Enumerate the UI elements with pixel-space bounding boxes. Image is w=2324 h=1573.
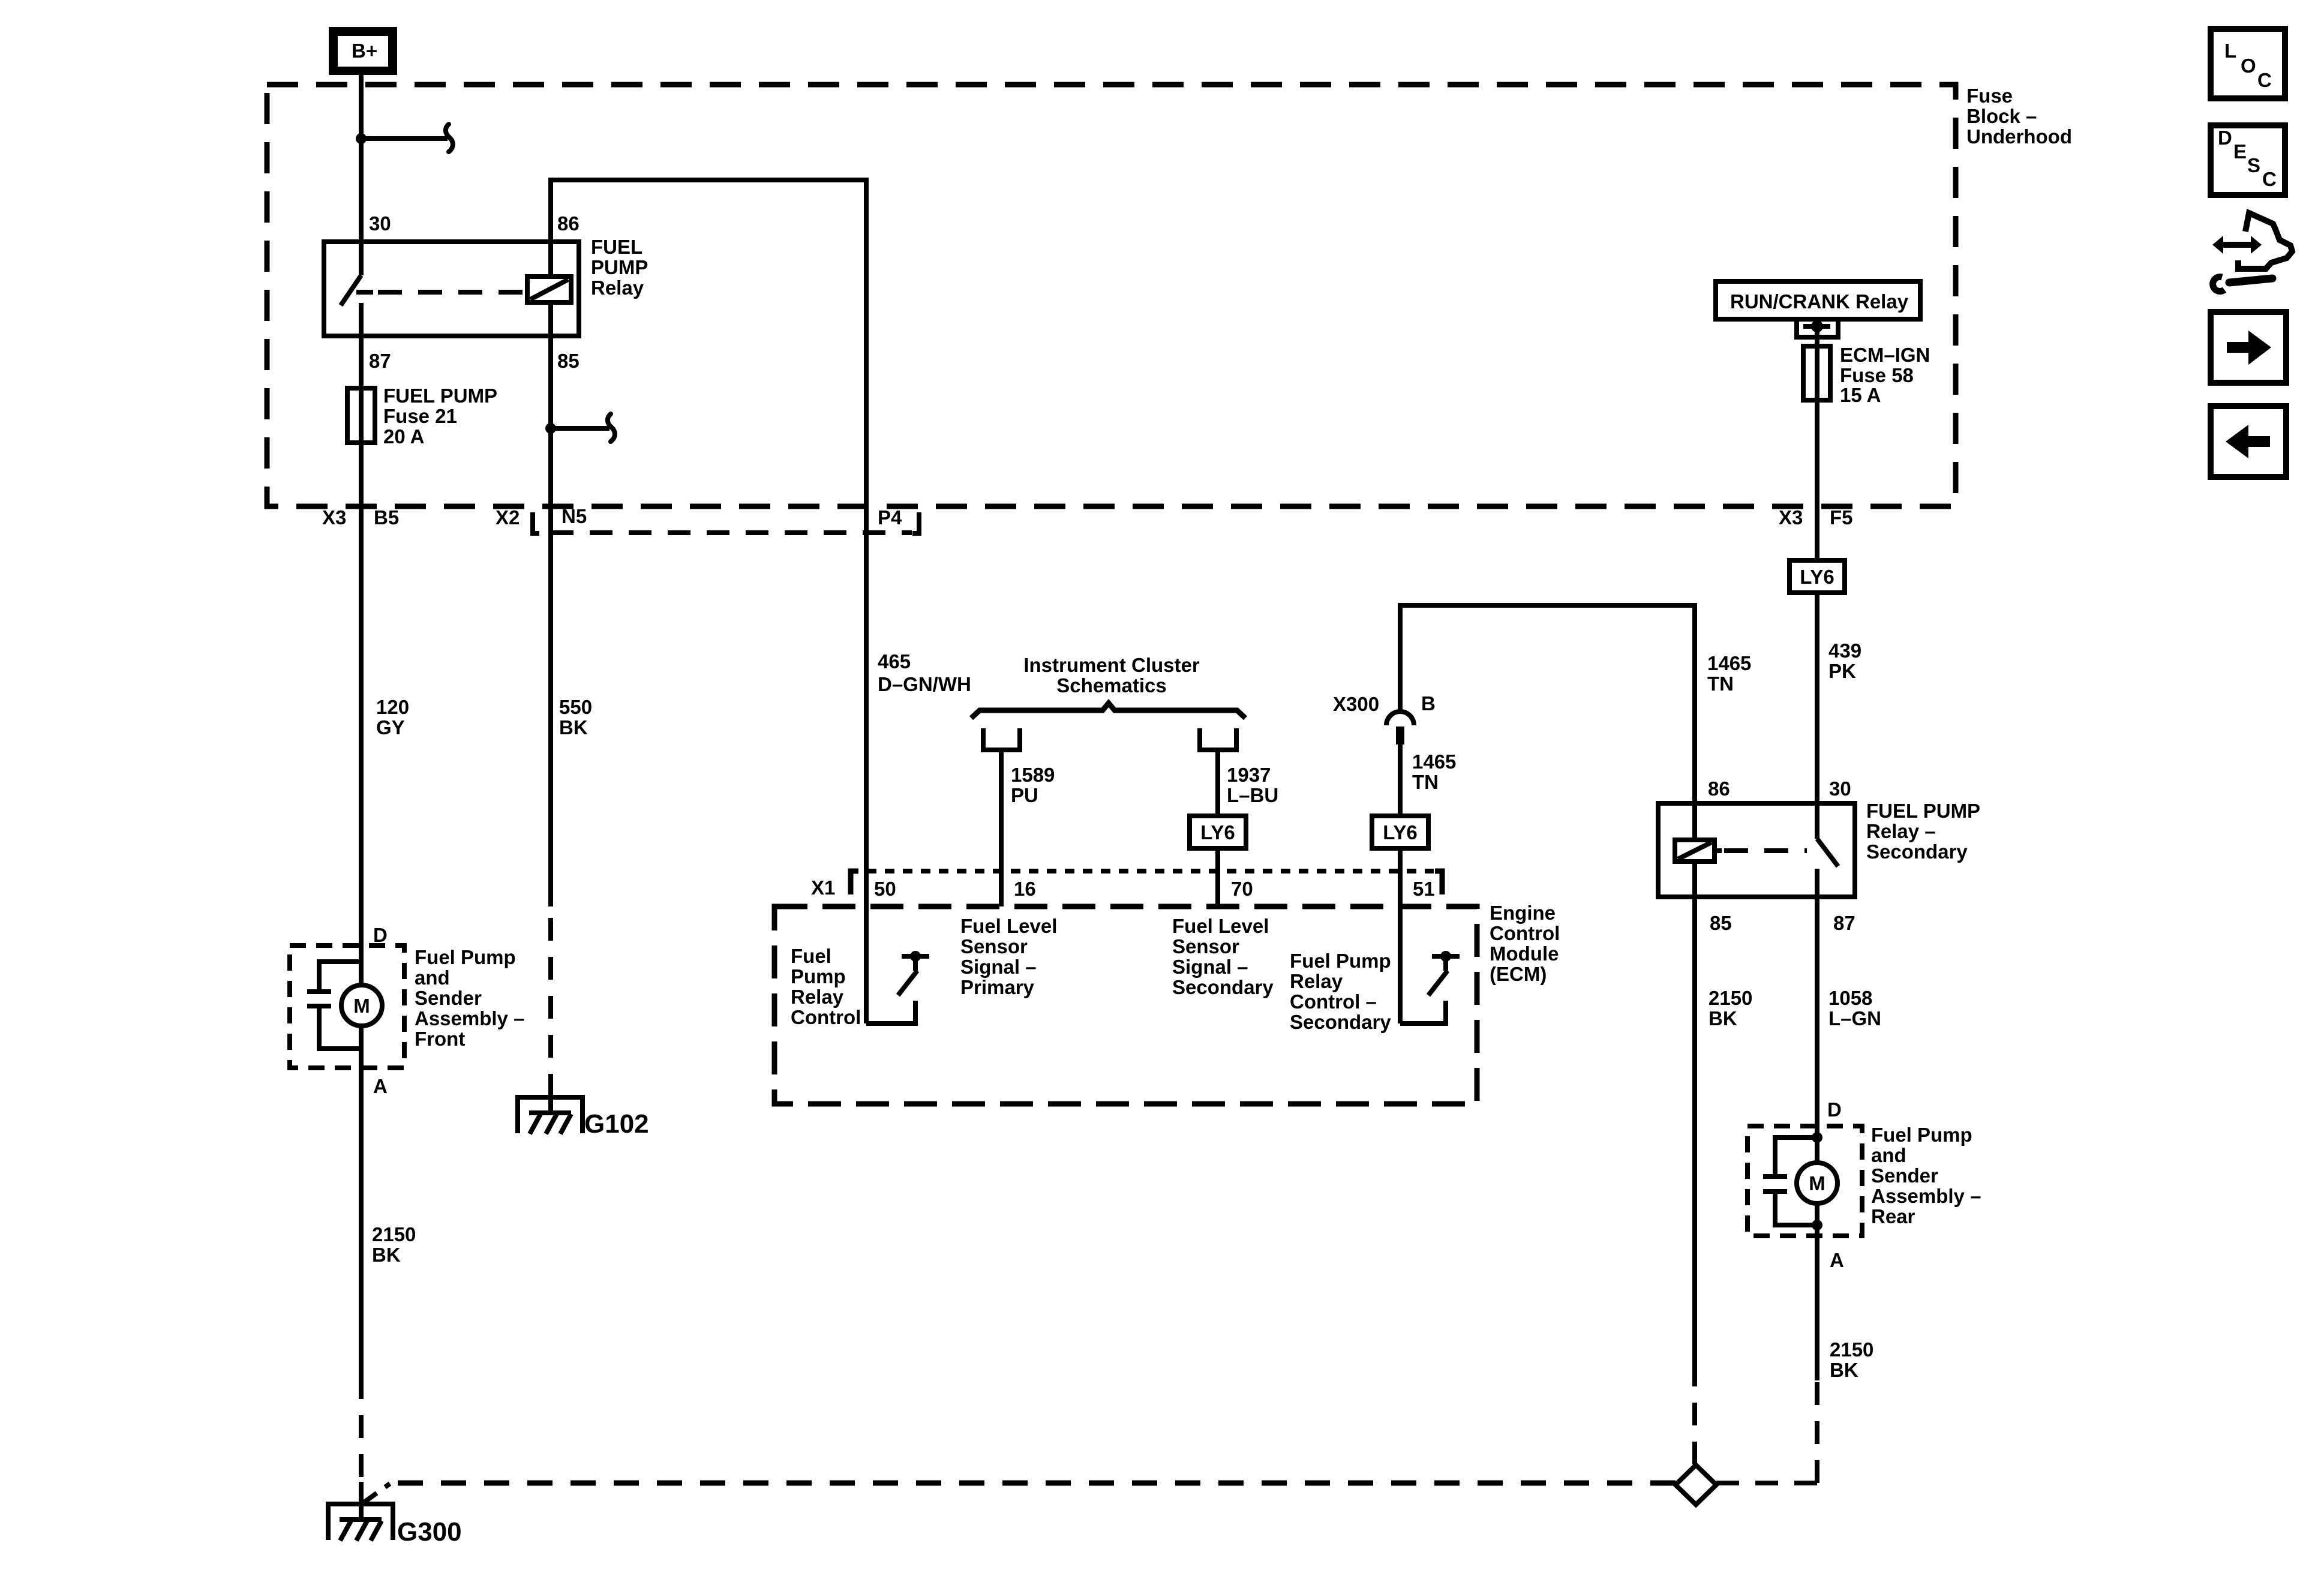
svg-text:D–GN/WH: D–GN/WH [878,673,971,695]
svg-text:M: M [353,995,370,1017]
svg-text:(ECM): (ECM) [1490,963,1547,985]
svg-text:X300: X300 [1333,693,1379,715]
svg-text:1589: 1589 [1011,764,1055,786]
svg-text:E: E [2233,140,2247,163]
svg-text:86: 86 [557,212,580,235]
svg-text:D: D [1827,1098,1842,1121]
svg-text:1058: 1058 [1828,987,1872,1009]
svg-text:85: 85 [557,350,580,372]
svg-text:PUMP: PUMP [591,256,648,278]
svg-text:Sender: Sender [415,987,482,1009]
svg-text:P4: P4 [878,506,902,529]
svg-text:M: M [1809,1172,1825,1194]
svg-text:LY6: LY6 [1800,566,1834,588]
svg-text:N5: N5 [562,505,587,527]
svg-text:D: D [373,924,388,946]
svg-text:70: 70 [1231,878,1253,900]
svg-text:Signal –: Signal – [960,956,1037,978]
svg-text:1465: 1465 [1707,652,1751,674]
svg-text:O: O [2241,55,2256,77]
svg-text:20 A: 20 A [383,425,424,448]
svg-text:Secondary: Secondary [1866,840,1968,863]
svg-text:Engine: Engine [1490,902,1556,924]
svg-text:X3: X3 [1779,506,1803,529]
svg-text:Fuse 58: Fuse 58 [1840,364,1914,386]
svg-text:and: and [415,966,450,989]
svg-text:Fuel Pump: Fuel Pump [415,946,516,968]
svg-text:Control: Control [791,1006,861,1028]
svg-text:Schematics: Schematics [1056,674,1166,697]
svg-text:Relay: Relay [591,277,644,299]
svg-text:2150: 2150 [1830,1338,1873,1361]
svg-text:Sensor: Sensor [1172,935,1239,957]
svg-text:Primary: Primary [960,976,1035,998]
svg-text:Fuel Level: Fuel Level [960,915,1057,937]
svg-text:439: 439 [1828,640,1861,662]
svg-text:TN: TN [1707,673,1734,695]
svg-text:BK: BK [372,1244,401,1266]
svg-text:G300: G300 [397,1517,462,1547]
svg-text:A: A [373,1075,388,1097]
svg-text:Pump: Pump [791,965,846,987]
svg-text:51: 51 [1413,878,1435,900]
svg-text:LY6: LY6 [1383,821,1418,843]
svg-text:X3: X3 [322,506,346,529]
svg-text:BK: BK [559,716,588,739]
svg-text:B5: B5 [374,506,399,529]
svg-text:X1: X1 [811,876,835,899]
svg-text:PK: PK [1828,660,1856,682]
svg-text:Instrument Cluster: Instrument Cluster [1023,654,1200,676]
svg-text:FUEL: FUEL [591,236,642,258]
svg-text:120: 120 [376,696,409,718]
svg-text:87: 87 [1833,912,1855,934]
svg-text:FUEL PUMP: FUEL PUMP [383,385,497,407]
svg-text:2150: 2150 [1709,987,1752,1009]
svg-text:Front: Front [415,1028,465,1050]
svg-text:1465: 1465 [1412,751,1456,773]
svg-text:Sensor: Sensor [960,935,1028,957]
svg-text:Relay –: Relay – [1866,820,1936,842]
svg-text:Underhood: Underhood [1966,125,2072,148]
svg-text:F5: F5 [1830,506,1853,529]
svg-text:LY6: LY6 [1200,821,1235,843]
svg-text:50: 50 [874,878,896,900]
svg-text:Fuse 21: Fuse 21 [383,405,457,427]
svg-text:X2: X2 [496,506,520,529]
svg-text:L–BU: L–BU [1227,784,1278,806]
svg-text:Control: Control [1490,922,1560,944]
svg-text:FUEL PUMP: FUEL PUMP [1866,800,1980,822]
svg-text:85: 85 [1710,912,1732,934]
svg-text:Rear: Rear [1871,1205,1915,1227]
svg-text:and: and [1871,1144,1906,1166]
svg-text:87: 87 [369,350,391,372]
svg-text:Fuel Pump: Fuel Pump [1871,1124,1972,1146]
svg-text:S: S [2247,154,2260,176]
svg-text:Fuel: Fuel [791,945,831,967]
svg-text:Fuel Pump: Fuel Pump [1290,950,1391,972]
svg-text:Assembly –: Assembly – [415,1007,524,1029]
svg-text:Relay: Relay [1290,970,1343,992]
svg-text:L: L [2224,40,2236,62]
svg-text:Block –: Block – [1966,105,2037,127]
svg-text:TN: TN [1412,771,1439,793]
svg-text:Fuel Level: Fuel Level [1172,915,1269,937]
svg-text:C: C [2262,168,2277,190]
svg-text:BK: BK [1709,1007,1737,1029]
svg-text:Signal –: Signal – [1172,956,1248,978]
svg-text:PU: PU [1011,784,1038,806]
svg-text:Sender: Sender [1871,1164,1938,1187]
svg-text:1937: 1937 [1227,764,1271,786]
svg-text:Relay: Relay [791,986,844,1008]
svg-text:ECM–IGN: ECM–IGN [1840,344,1930,366]
svg-text:30: 30 [1829,778,1851,800]
svg-text:Secondary: Secondary [1172,976,1274,998]
svg-text:465: 465 [878,650,911,673]
svg-text:GY: GY [376,716,405,739]
svg-text:L–GN: L–GN [1828,1007,1881,1029]
svg-text:G102: G102 [584,1109,649,1139]
svg-text:550: 550 [559,696,592,718]
svg-text:30: 30 [369,212,391,235]
svg-text:86: 86 [1708,778,1730,800]
svg-text:B+: B+ [352,40,377,62]
svg-text:Module: Module [1490,942,1559,965]
svg-text:Secondary: Secondary [1290,1011,1391,1033]
svg-text:B: B [1421,692,1436,715]
svg-text:Control –: Control – [1290,990,1377,1013]
svg-text:2150: 2150 [372,1223,416,1245]
svg-text:16: 16 [1014,878,1036,900]
svg-text:Assembly –: Assembly – [1871,1185,1981,1207]
svg-text:RUN/CRANK Relay: RUN/CRANK Relay [1730,290,1909,313]
svg-text:C: C [2257,69,2272,91]
svg-text:BK: BK [1830,1359,1858,1381]
svg-text:D: D [2218,127,2232,149]
svg-text:Fuse: Fuse [1966,85,2013,107]
svg-text:A: A [1830,1249,1844,1271]
svg-text:15 A: 15 A [1840,384,1881,406]
